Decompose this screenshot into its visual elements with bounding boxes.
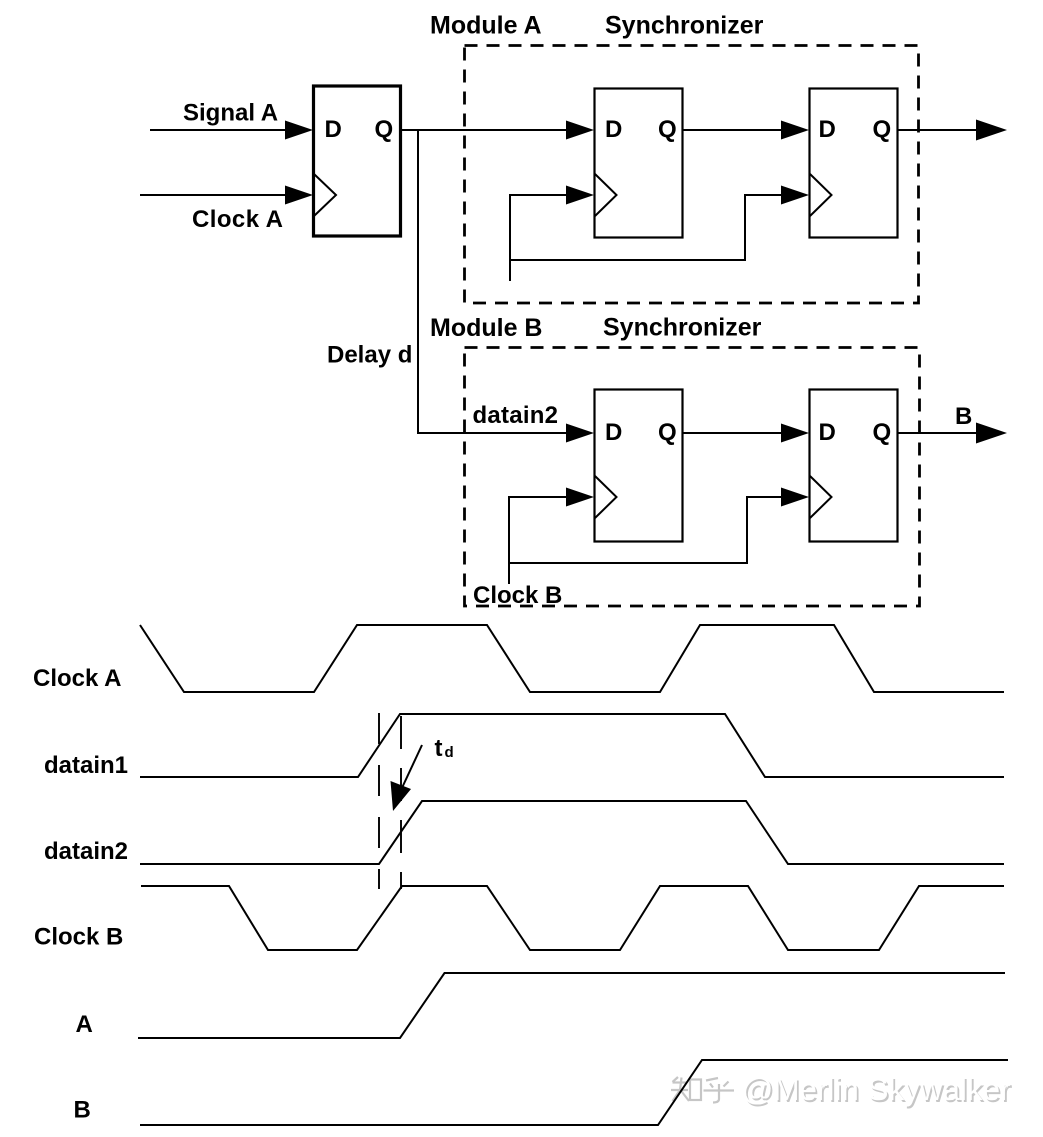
svg-text:B: B: [955, 403, 972, 430]
svg-text:Q: Q: [658, 419, 677, 446]
arrowhead Module A output: [976, 120, 1007, 141]
wire vertical Q branch to Module B (Delay d path): [418, 130, 568, 433]
wire Module A clock lower branch: [510, 195, 783, 260]
svg-text:Q: Q: [375, 116, 394, 143]
wire Module B clock lower branch: [509, 497, 783, 563]
dashed marker line 1: [378, 713, 380, 889]
flip-flop U1 (source register): [314, 86, 401, 236]
flip-flop U4 (Module B first sync FF): [595, 390, 683, 542]
flip-flop U2 (Module A first sync FF): [595, 89, 683, 238]
svg-text:d: d: [445, 744, 454, 761]
svg-text:Clock A: Clock A: [192, 206, 283, 233]
clock chevron of U3: [810, 174, 832, 216]
svg-text:Q: Q: [873, 116, 892, 143]
wire U4 Q to U5 D: [683, 432, 784, 434]
svg-text:B: B: [74, 1097, 91, 1124]
wire Module B clock stub: [508, 497, 510, 584]
waveform datain2: [140, 801, 1004, 864]
wire Module B output B: [898, 432, 979, 434]
arrowhead into U3 clock: [781, 186, 809, 205]
svg-text:datain2: datain2: [44, 838, 128, 865]
arrowhead td: [391, 781, 412, 811]
wire U2 Q to U3 D: [683, 129, 784, 131]
wire Signal A input: [150, 129, 288, 131]
svg-text:datain1: datain1: [44, 752, 128, 779]
svg-text:D: D: [819, 116, 836, 143]
svg-text:Signal A: Signal A: [183, 100, 278, 127]
wire Clock A input: [140, 194, 288, 196]
svg-text:Delay d: Delay d: [327, 342, 412, 369]
flip-flop U5 (Module B second sync FF): [810, 390, 898, 542]
svg-text:Module B: Module B: [430, 314, 543, 342]
arrowhead into U5 D: [781, 424, 809, 443]
wire Module B clock to U4: [508, 496, 568, 498]
clock chevron of U1: [314, 174, 336, 216]
wire U1 Q to Module A FF U2: [400, 129, 568, 131]
arrowhead into U1 D: [285, 121, 313, 140]
waveform datain1: [140, 714, 1004, 777]
svg-text:D: D: [605, 419, 622, 446]
svg-text:Synchronizer: Synchronizer: [605, 12, 764, 40]
arrowhead into U2 D: [566, 121, 594, 140]
svg-text:D: D: [605, 116, 622, 143]
flip-flop U3 (Module A second sync FF): [810, 89, 898, 238]
arrowhead into U4 D: [566, 424, 594, 443]
clock chevron of U4: [595, 476, 617, 518]
svg-text:Synchronizer: Synchronizer: [603, 314, 762, 342]
waveform B: [140, 1060, 1008, 1125]
svg-text:datain2: datain2: [473, 402, 559, 429]
svg-text:Module A: Module A: [430, 12, 542, 40]
watermark: [671, 1077, 734, 1103]
svg-text:Clock B: Clock B: [34, 924, 123, 951]
svg-text:Q: Q: [873, 419, 892, 446]
clock chevron of U5: [810, 476, 832, 518]
clock chevron of U2: [595, 174, 617, 216]
arrowhead into U5 clock: [781, 488, 809, 507]
svg-text:A: A: [76, 1011, 93, 1038]
waveform Clock B: [141, 886, 1004, 950]
svg-text:D: D: [819, 419, 836, 446]
svg-text:D: D: [325, 116, 342, 143]
svg-text:Clock B: Clock B: [473, 582, 562, 609]
Module B dashed boundary: [465, 348, 920, 607]
arrowhead into U3 D: [781, 121, 809, 140]
waveform Clock A: [140, 625, 1004, 692]
annotation arrow td: [401, 745, 422, 790]
arrowhead into U2 clock: [566, 186, 594, 205]
wire Module A clock stub: [509, 195, 511, 281]
svg-text:t: t: [435, 735, 443, 762]
wire Module A clock to U2: [509, 194, 568, 196]
arrowhead into U4 clock: [566, 488, 594, 507]
wire Module A output: [898, 129, 979, 131]
waveform A: [138, 973, 1005, 1038]
svg-text:@Merlin Skywalker: @Merlin Skywalker: [742, 1071, 1011, 1107]
arrowhead into U1 clock: [285, 186, 313, 205]
dashed marker line 2: [400, 713, 402, 889]
svg-text:Q: Q: [658, 116, 677, 143]
arrowhead Module B output: [976, 423, 1007, 444]
Module A dashed boundary: [465, 46, 919, 304]
svg-text:Clock A: Clock A: [33, 665, 121, 692]
